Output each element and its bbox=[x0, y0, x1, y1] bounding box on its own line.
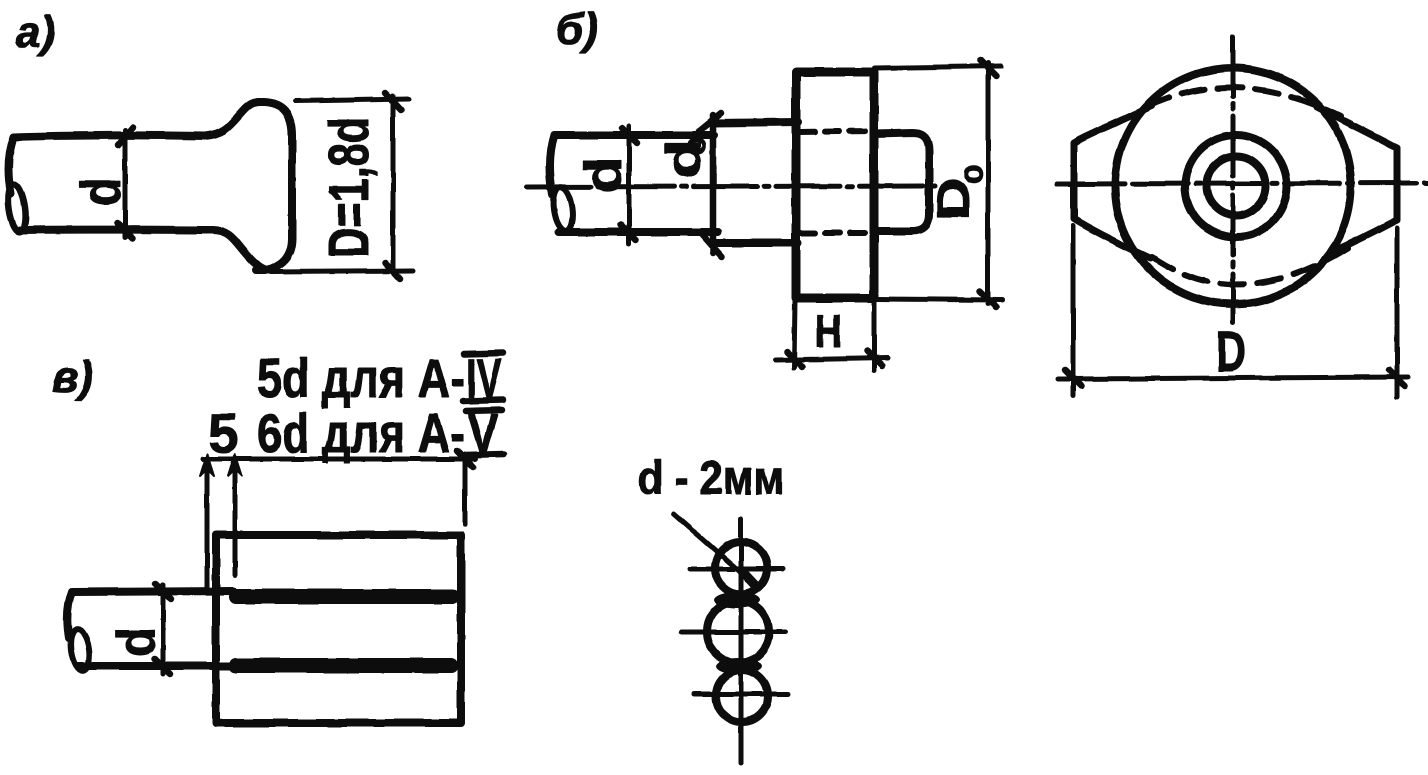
transverse bars outer rectangle bbox=[216, 535, 461, 723]
svg-text:d: d bbox=[69, 178, 132, 206]
bar d (view a) top edge bbox=[14, 135, 205, 137]
extension line bottom D0 bbox=[876, 299, 1002, 300]
dimension line d (view a) bbox=[117, 127, 133, 238]
bar d (view a) broken left end bbox=[6, 137, 29, 233]
bar d (view b) top edge bbox=[554, 131, 714, 139]
label b) bbox=[556, 5, 598, 54]
bar d (view v) broken left end bbox=[67, 592, 92, 672]
extension line H left bbox=[794, 300, 795, 368]
svg-text:5d для А-: 5d для А- bbox=[257, 347, 465, 409]
rod hidden top edge (dashed in plate) bbox=[800, 131, 872, 132]
crosshair middle circle bbox=[681, 630, 786, 635]
label d (view a) bbox=[69, 178, 132, 206]
svg-text:а): а) bbox=[16, 8, 55, 57]
upset head neck top curve bbox=[205, 102, 260, 136]
dimension line d (view v) bbox=[155, 584, 171, 674]
label 5 6d dlya A-V bbox=[208, 402, 504, 464]
vertical centerline (front view) bbox=[1231, 37, 1236, 322]
crosshair top circle bbox=[690, 567, 783, 572]
upset end beyond plate bbox=[874, 133, 929, 231]
label D0 bbox=[927, 164, 989, 221]
svg-text:d: d bbox=[575, 157, 633, 193]
step / dimension line d0 bbox=[699, 113, 722, 257]
label d (view b) bbox=[575, 157, 633, 193]
svg-text:D: D bbox=[1216, 319, 1246, 384]
label 5d dlya A-IV bbox=[257, 347, 503, 409]
dimension line 5d/6d bbox=[203, 457, 475, 462]
label d (view v) bbox=[107, 627, 166, 657]
svg-text:D=1,8d: D=1,8d bbox=[317, 117, 380, 258]
label D bbox=[1216, 319, 1246, 384]
label a) bbox=[16, 8, 55, 57]
weld fillet upper junction bbox=[714, 592, 760, 608]
label H bbox=[815, 305, 842, 357]
svg-text:в): в) bbox=[52, 353, 93, 402]
extension line left (x207) bbox=[200, 454, 214, 590]
weld fillet lower junction bbox=[716, 658, 762, 674]
vertical centerline (detail) bbox=[739, 519, 744, 763]
bottom bar section circle bbox=[716, 670, 768, 722]
upset head neck bottom curve bbox=[212, 230, 267, 270]
right wing bbox=[1317, 107, 1397, 252]
extension line mid (x235) bbox=[228, 454, 242, 575]
label D=1,8d bbox=[317, 117, 380, 258]
rod d0 top edge bbox=[713, 122, 798, 123]
anchor plate (side view) bbox=[796, 72, 874, 298]
weld seam upper bbox=[229, 589, 460, 604]
svg-text:o: o bbox=[953, 164, 989, 184]
bar d (view b) broken left end bbox=[550, 135, 575, 232]
extension line right (x465) bbox=[457, 451, 473, 524]
crosshair bottom circle bbox=[694, 692, 788, 697]
hole outer circle bbox=[1185, 135, 1287, 237]
plate outline circle (front view) bbox=[1115, 68, 1351, 304]
dimension line H bbox=[775, 351, 888, 367]
centerline (view b side) bbox=[527, 186, 941, 187]
leader line bbox=[674, 514, 757, 587]
svg-text:6d для А-: 6d для А- bbox=[257, 402, 465, 464]
hole inner circle bbox=[1207, 157, 1266, 216]
top bar section circle bbox=[715, 542, 767, 594]
label d0 bbox=[658, 136, 712, 179]
bar d (view v) bottom edge bbox=[78, 662, 233, 670]
dimension line D bbox=[1058, 370, 1408, 386]
extension line D left bbox=[1071, 226, 1076, 396]
extension line top (view a) bbox=[295, 99, 409, 101]
svg-text:б): б) bbox=[556, 5, 598, 54]
hidden contour dashed arc top bbox=[1147, 88, 1341, 116]
dimension line D0 bbox=[980, 60, 996, 307]
rod d0 bottom edge bbox=[713, 239, 798, 247]
dimension line D=1,8d bbox=[385, 93, 401, 279]
middle bar section circle bbox=[707, 601, 769, 663]
label d-2mm bbox=[638, 452, 784, 505]
dimension line d (view b) bbox=[621, 126, 637, 244]
left wing bbox=[1074, 106, 1152, 258]
label v) bbox=[52, 353, 93, 402]
bar d (view a) bottom edge bbox=[20, 226, 212, 234]
extension line H right bbox=[872, 300, 877, 371]
bar d (view b) bottom edge bbox=[559, 228, 718, 236]
rod hidden bottom edge (dashed in plate) bbox=[800, 230, 872, 236]
upset head outline bbox=[256, 102, 292, 270]
bar d (view v) top edge bbox=[72, 591, 233, 592]
extension line D right bbox=[1395, 228, 1400, 397]
horizontal centerline (front view) bbox=[1057, 183, 1428, 184]
extension line bottom (view a) bbox=[270, 271, 413, 272]
svg-text:H: H bbox=[815, 305, 842, 357]
svg-text:d: d bbox=[107, 627, 166, 657]
svg-text:o: o bbox=[676, 136, 712, 156]
hidden contour dashed arc bottom bbox=[1152, 248, 1348, 284]
svg-text:d - 2мм: d - 2мм bbox=[638, 452, 784, 505]
extension line top D0 bbox=[874, 66, 1001, 68]
weld seam lower bbox=[229, 658, 458, 673]
